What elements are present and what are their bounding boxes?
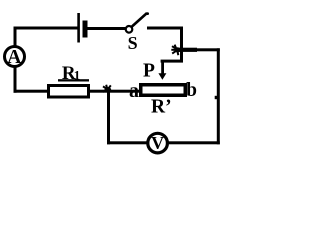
wire switch to top-right corner — [147, 27, 183, 30]
resistor R1 body — [49, 86, 89, 98]
ammeter A1 circle — [5, 47, 25, 67]
node nub on right vertical — [215, 96, 217, 99]
switch S pivot circle — [126, 26, 133, 33]
wire battery to switch — [88, 27, 127, 30]
svg-text:R’: R’ — [151, 97, 172, 118]
svg-text:P: P — [143, 60, 155, 81]
wire junction J1 thick segment — [175, 48, 197, 52]
wire slider branch horizontal — [161, 60, 183, 63]
battery B1 long plate — [77, 13, 80, 43]
wire top-right vertical (down to slider branch) — [180, 27, 183, 63]
voltmeter V1 circle — [148, 133, 168, 153]
svg-text:b: b — [186, 80, 197, 101]
wire right vertical — [217, 48, 220, 144]
slider arrow P stem — [161, 61, 164, 75]
rheostat R' body — [141, 85, 186, 96]
node junction J2 (starburst) — [103, 85, 111, 93]
svg-text:V: V — [151, 133, 164, 153]
wire bottom-left corner to R1 — [14, 90, 49, 93]
svg-text:A: A — [7, 47, 21, 68]
battery B1 short plate — [83, 21, 88, 38]
wire voltmeter left branch vertical — [107, 91, 110, 144]
wire top-left horizontal (corner to battery) — [14, 27, 79, 30]
wire R1 to rheostat terminal a — [89, 90, 141, 93]
wire junction J1 to right edge — [176, 48, 220, 51]
wire left vertical lower (ammeter to corner) — [14, 67, 17, 93]
wire left vertical upper (corner to ammeter) — [14, 27, 17, 47]
switch S blade — [131, 13, 147, 27]
svg-text:S: S — [128, 33, 138, 53]
label R1 underline — [58, 79, 89, 81]
node junction J1 (starburst) — [171, 45, 180, 56]
wire bottom right segment — [169, 141, 220, 144]
wire bottom left segment — [107, 141, 147, 144]
slider arrow P head — [158, 73, 166, 80]
